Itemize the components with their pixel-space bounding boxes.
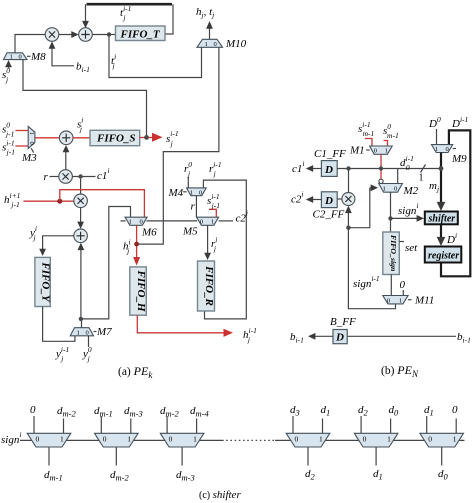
FIFO_sign output to M11: [390, 275, 392, 296]
svg-text:ti-1j: ti-1j: [120, 4, 131, 22]
wire D^0 into M9: [436, 129, 438, 145]
junction node M7 out: [79, 317, 83, 321]
svg-text:0: 0: [30, 404, 36, 416]
svg-text:0: 0: [452, 404, 458, 416]
svg-text:D: D: [324, 164, 333, 176]
wire: FIFO_Y out down right up into M7: [43, 307, 75, 342]
svg-text:0: 0: [374, 148, 377, 155]
svg-text:s0j: s0j: [2, 66, 10, 84]
mux M2: [379, 184, 403, 193]
FIFO_sign (vertical): [383, 232, 400, 275]
FIFO_T: [116, 26, 166, 41]
red wire s_m-1^0 into M1: [384, 141, 388, 147]
M4 output r to M5: [195, 196, 197, 218]
wire c1 down to multiplier h: [80, 179, 82, 194]
svg-text:s0m-1: s0m-1: [383, 122, 399, 140]
wire d0 down into M2 right input: [397, 169, 399, 184]
svg-text:1: 1: [28, 132, 35, 135]
FIFO_H (vertical): [130, 267, 147, 315]
select arrow into M2: [370, 184, 378, 191]
FIFO_Y (vertical): [35, 257, 52, 306]
svg-text:yi-1j: yi-1j: [55, 345, 69, 363]
svg-text:0: 0: [446, 146, 449, 153]
M1 output red down to inverter bubble and M2: [380, 154, 382, 179]
mux M1: [370, 146, 393, 155]
M3 select stub: [31, 148, 33, 152]
svg-text:1: 1: [453, 434, 457, 443]
svg-text:mj: mj: [429, 180, 439, 194]
shifter mux 4: [286, 416, 330, 466]
svg-text:dm-1: dm-1: [44, 469, 63, 483]
shifter mux 6: [420, 416, 464, 466]
multiplier (t path): [45, 28, 59, 42]
select line dotted: [222, 439, 275, 441]
svg-text:M5: M5: [182, 226, 198, 238]
svg-text:bi-1: bi-1: [457, 331, 471, 345]
select wire M6-M5: [147, 220, 198, 222]
svg-text:0: 0: [169, 434, 173, 443]
mux M3 (vertical): [28, 126, 35, 148]
M7 label tick: [94, 331, 97, 333]
svg-text:1: 1: [60, 434, 64, 443]
FIFO_R (vertical): [198, 261, 216, 311]
svg-text:tij: tij: [111, 52, 116, 70]
input s_j^0 arrow into M8: [5, 60, 12, 69]
red branch up and right to M6: [60, 190, 145, 218]
svg-text:0: 0: [28, 142, 35, 145]
FIFO_S: [90, 130, 140, 145]
svg-text:di-10: di-10: [400, 154, 414, 172]
wire: M3 out to adder (red): [35, 137, 60, 139]
svg-text:M9: M9: [451, 153, 467, 165]
svg-text:d0: d0: [438, 468, 449, 482]
red junction: [57, 199, 62, 204]
svg-text:0: 0: [400, 279, 406, 291]
wire sign loop from M11: [348, 228, 395, 309]
select line left: [20, 439, 222, 441]
wire: adder out to FIFO_T: [92, 34, 115, 36]
svg-text:hi-1j: hi-1j: [243, 326, 257, 344]
svg-text:0: 0: [86, 330, 89, 337]
svg-text:0: 0: [199, 189, 202, 196]
svg-text:0: 0: [36, 434, 40, 443]
FIFO_S output red arrow s_j^i-1: [140, 133, 163, 142]
adder (y path): [74, 229, 88, 243]
svg-text:D0: D0: [428, 115, 441, 130]
d0 net horizontal: [337, 168, 441, 170]
wire: adder to FIFO_S (red): [73, 137, 90, 139]
svg-text:Di: Di: [446, 231, 457, 246]
svg-text:1: 1: [319, 434, 323, 443]
svg-text:FIFO_S: FIFO_S: [96, 133, 136, 145]
D flip-flop C2_FF: [321, 192, 337, 208]
mux M4: [187, 188, 207, 196]
set tick: [399, 241, 404, 243]
svg-text:d1: d1: [373, 468, 383, 482]
svg-text:1: 1: [399, 297, 402, 304]
multiplier (b): [342, 193, 355, 206]
wire d0 net down into multiplier top: [348, 169, 350, 193]
svg-text:dm-2: dm-2: [57, 405, 76, 419]
svg-text:M3: M3: [21, 152, 37, 164]
wire: multiplier to adder with arrow: [59, 31, 79, 38]
svg-text:d1: d1: [321, 404, 331, 418]
arrow multiplier h down into y adder: [77, 208, 84, 229]
shifter mux 5: [354, 416, 398, 466]
register box: [425, 247, 462, 263]
wire: h_j^i from node up to M10 right input: [138, 47, 219, 244]
svg-text:0: 0: [19, 54, 22, 61]
mux M8: [4, 53, 28, 61]
svg-text:d2: d2: [305, 468, 316, 482]
M4 label tick: [183, 191, 186, 193]
svg-text:si-1j-1: si-1j-1: [207, 192, 220, 210]
shifter mux 3: [160, 416, 204, 466]
wire sign to M2 select: [348, 188, 369, 228]
svg-text:yij: yij: [29, 224, 37, 242]
svg-text:dm-3: dm-3: [124, 405, 143, 419]
svg-text:rij: rij: [211, 235, 217, 253]
wire: FIFO_S output feedback up to M8 input: [23, 60, 147, 136]
adder (s path): [59, 131, 73, 145]
arrow b_i-1 out left: [308, 333, 333, 340]
inverter bubble: [379, 179, 383, 183]
svg-text:1: 1: [193, 434, 197, 443]
M10 output arrow up: [206, 21, 213, 39]
svg-text:(a) PEk: (a) PEk: [118, 364, 153, 380]
wire red s0: [16, 130, 29, 132]
svg-text:d2: d2: [358, 404, 369, 418]
svg-text:hj, tj: hj, tj: [196, 6, 214, 20]
bus shifter to register: [437, 224, 446, 246]
svg-text:D: D: [324, 195, 333, 207]
svg-text:C1_FF: C1_FF: [314, 148, 346, 160]
svg-text:shifter: shifter: [428, 213, 456, 224]
wire b_i-1 from right: [347, 335, 456, 337]
svg-text:0: 0: [428, 434, 432, 443]
arrow c1 out: [306, 165, 322, 172]
svg-text:0: 0: [387, 297, 390, 304]
svg-text:r: r: [191, 201, 196, 213]
M6 output red down to FIFO_H: [133, 225, 140, 265]
svg-text:1: 1: [10, 54, 13, 61]
svg-text:ri-1j: ri-1j: [209, 160, 222, 178]
red wire s_m-1^i-1 into M1: [365, 139, 372, 147]
M2 output down to FIFO_sign: [390, 192, 392, 232]
mux M6: [125, 217, 147, 225]
arrow c2 out: [306, 196, 322, 203]
svg-text:set: set: [405, 242, 418, 254]
svg-text:1: 1: [127, 434, 131, 443]
svg-text:bi-1: bi-1: [76, 61, 90, 75]
wire: M7 node right and up to M6 left input: [81, 207, 131, 319]
svg-text:0: 0: [363, 434, 367, 443]
junction dot sign^i: [388, 216, 392, 220]
input r_j^0: [187, 177, 189, 188]
D flip-flop C1_FF: [321, 161, 337, 177]
svg-text:si-1j-1: si-1j-1: [2, 139, 15, 157]
svg-text:M7: M7: [96, 326, 112, 338]
svg-text:1: 1: [383, 186, 386, 193]
svg-text:r: r: [44, 171, 49, 183]
svg-text:1: 1: [77, 330, 80, 337]
wire: y adder out to FIFO_Y with arrow: [39, 236, 74, 256]
svg-text:d1: d1: [424, 404, 434, 418]
D flip-flop B_FF: [333, 330, 347, 344]
svg-text:dm-2: dm-2: [110, 469, 129, 483]
M9 label tick: [453, 148, 456, 150]
svg-text:1: 1: [205, 41, 208, 48]
svg-text:M11: M11: [414, 295, 434, 307]
svg-text:0: 0: [214, 41, 217, 48]
svg-text:FIFO_H: FIFO_H: [135, 270, 147, 312]
shifter box: [425, 212, 458, 225]
wire: feedback loop FIFO_T output to adder top: [82, 4, 173, 34]
input y_j^0 into M7: [88, 336, 90, 347]
svg-text:register: register: [428, 251, 459, 262]
svg-text:D: D: [335, 332, 344, 344]
shifter mux 2: [95, 416, 139, 466]
svg-text:0: 0: [103, 434, 107, 443]
svg-text:M1: M1: [349, 145, 365, 157]
M5 output arrow to FIFO_R: [204, 225, 211, 260]
arrow from M7 node up into y adder: [78, 243, 85, 319]
red wire h_j-1: [24, 200, 74, 202]
svg-text:c2i: c2i: [291, 190, 303, 206]
select line right: [275, 439, 465, 441]
junction dot sign: [346, 226, 350, 230]
svg-text:dm-1: dm-1: [94, 405, 113, 419]
shifter mux 1: [27, 416, 71, 466]
svg-text:si-1j: si-1j: [166, 129, 179, 148]
svg-text:1: 1: [385, 148, 388, 155]
svg-text:dm-3: dm-3: [176, 469, 195, 483]
svg-text:FIFO_sign: FIFO_sign: [389, 235, 398, 271]
junction dots on d0 net: [346, 166, 350, 170]
svg-text:M6: M6: [141, 227, 157, 239]
M8 label tick: [27, 55, 31, 57]
select stub left of M6: [121, 220, 126, 222]
junction node t_j^i: [107, 32, 111, 36]
svg-text:0: 0: [394, 186, 397, 193]
svg-text:C2_FF: C2_FF: [313, 209, 345, 221]
mux M5: [197, 217, 219, 225]
multiplier output left to C2_FF: [337, 198, 342, 200]
svg-text:signi: signi: [1, 430, 21, 446]
mux M9: [432, 145, 453, 153]
svg-text:FIFO_T: FIFO_T: [120, 28, 161, 40]
register feedback loop thick to M9: [441, 130, 470, 276]
svg-text:M10: M10: [225, 38, 247, 50]
svg-text:1: 1: [419, 173, 424, 184]
FIFO_H output red h_j^i-1: [137, 315, 233, 337]
input s_j-1^i-1 red into M5: [209, 209, 216, 217]
svg-text:0: 0: [200, 219, 203, 226]
svg-text:dm-4: dm-4: [190, 405, 209, 419]
c2 select wire: [219, 220, 233, 222]
svg-text:c1i: c1i: [292, 159, 304, 175]
M7 output up to node: [81, 319, 83, 328]
svg-text:signi-1: signi-1: [353, 274, 380, 290]
svg-text:s0j-1: s0j-1: [2, 121, 14, 139]
svg-text:1: 1: [190, 189, 193, 196]
multiplier (h path): [74, 194, 88, 208]
input b_i-1 with arrow into multiplier: [49, 41, 74, 65]
svg-text:B_FF: B_FF: [330, 316, 356, 328]
svg-text:d0: d0: [389, 404, 400, 418]
svg-text:(c) shifter: (c) shifter: [199, 489, 241, 501]
arrow sign^i to shifter: [391, 215, 425, 222]
arrow sign into multiplier bottom: [345, 206, 352, 228]
svg-text:si-1m-1: si-1m-1: [358, 120, 374, 138]
svg-text:signi: signi: [398, 201, 418, 217]
svg-text:0: 0: [295, 434, 299, 443]
mux M7: [70, 328, 93, 337]
svg-text:r0j: r0j: [184, 160, 192, 178]
arrow multiplier up into s adder: [63, 145, 70, 170]
junction node h_j^i: [134, 242, 139, 247]
M9 output thick bus to shifter: [437, 153, 446, 212]
svg-text:bi-1: bi-1: [290, 331, 304, 345]
svg-text:hij: hij: [123, 238, 131, 256]
svg-text:1: 1: [211, 219, 214, 226]
svg-text:1: 1: [129, 219, 132, 226]
mux M11: [383, 296, 408, 305]
svg-text:sij: sij: [77, 116, 83, 134]
wire c1 to multiplier, junction: [72, 176, 95, 178]
svg-text:FIFO_R: FIFO_R: [203, 265, 215, 306]
junction node on FIFO_S output: [144, 135, 149, 140]
wire: M8 output up to multiplier: [15, 35, 45, 53]
svg-text:0: 0: [140, 219, 143, 226]
svg-text:1: 1: [387, 434, 391, 443]
svg-text:dm-2: dm-2: [160, 405, 179, 419]
input 0 into M11: [402, 290, 404, 296]
svg-text:M4: M4: [168, 187, 184, 199]
M1 label tick: [366, 149, 369, 151]
wire t_j^i down and right to M10: [109, 35, 202, 78]
multiplier c1 x r: [59, 170, 73, 184]
adder (t path): [79, 28, 93, 42]
bus slash: [421, 165, 426, 173]
svg-text:M8: M8: [30, 51, 46, 63]
M11 label tick: [408, 299, 411, 301]
svg-text:Di-1: Di-1: [451, 115, 468, 130]
wire red si-1: [16, 145, 29, 147]
svg-text:hi+1j-1: hi+1j-1: [4, 191, 20, 209]
svg-text:d3: d3: [290, 404, 300, 418]
svg-text:c1i: c1i: [97, 166, 109, 182]
svg-text:M2: M2: [403, 185, 419, 197]
svg-text:(b) PEN: (b) PEN: [381, 363, 419, 379]
svg-text:y0j: y0j: [82, 345, 92, 363]
svg-text:FIFO_Y: FIFO_Y: [40, 261, 52, 302]
svg-text:1: 1: [435, 146, 438, 153]
mux M10: [197, 39, 223, 48]
wire r_j^i-1 from FIFO_R loop: [203, 180, 246, 319]
